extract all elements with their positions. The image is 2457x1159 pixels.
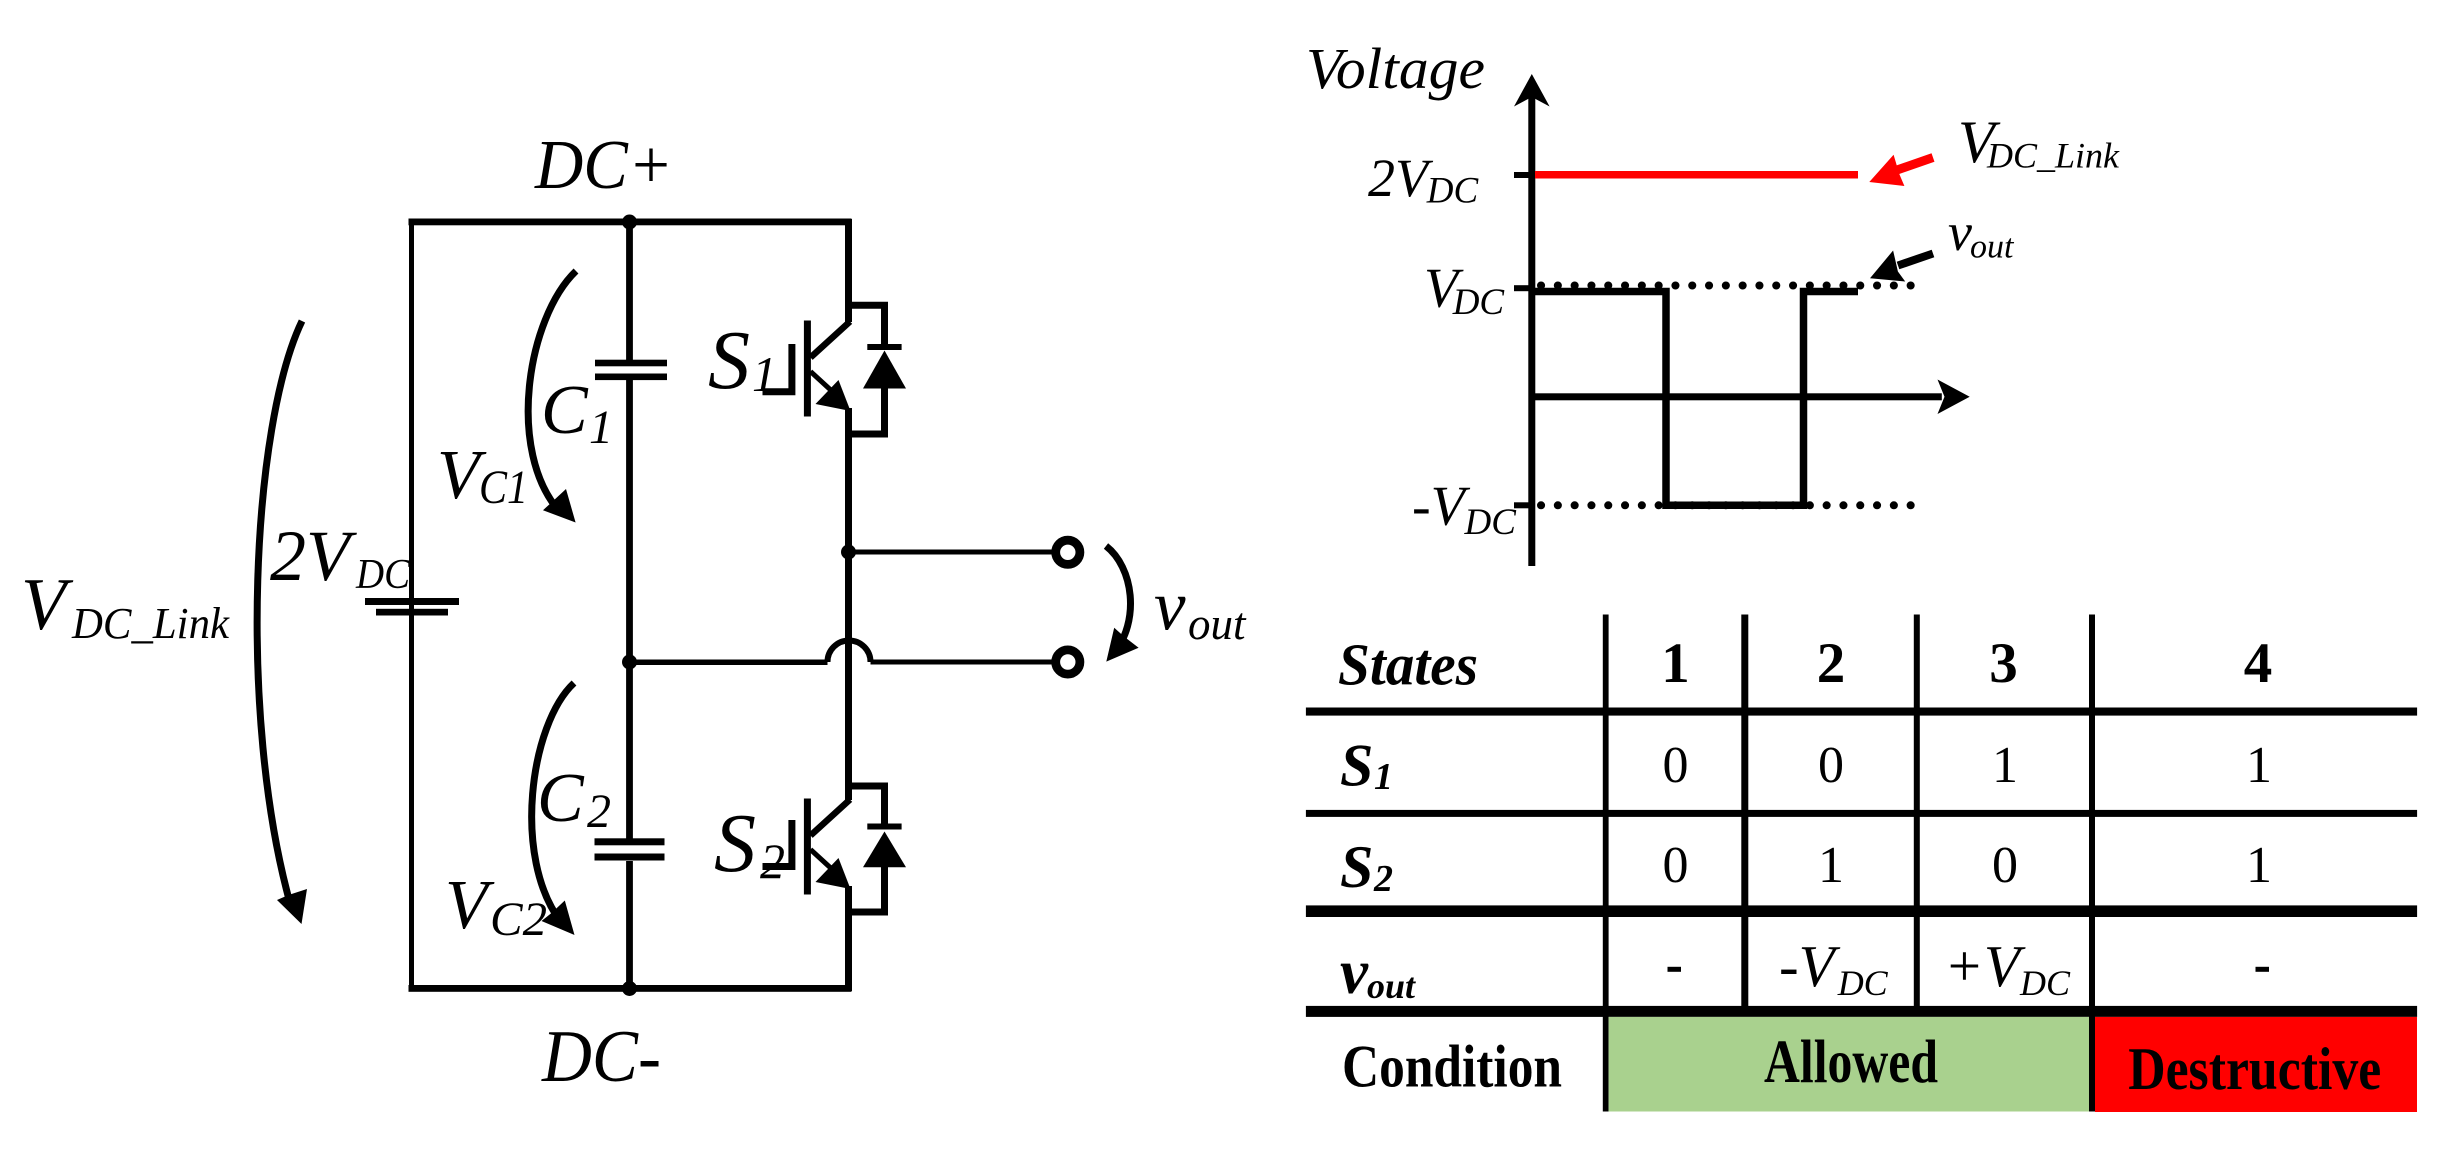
svg-text:2: 2 <box>1373 858 1393 900</box>
node dot DC+ junction <box>622 215 637 230</box>
transistor S1 emitter arrow <box>816 380 851 411</box>
svg-text:-V: -V <box>1412 476 1471 538</box>
red VDC_Link arrowhead <box>1869 155 1904 186</box>
node dot midpoint junction <box>622 655 637 670</box>
svg-text:S: S <box>1340 834 1373 900</box>
svg-text:0: 0 <box>1992 837 2018 894</box>
svg-text:C: C <box>541 372 589 449</box>
svg-text:DC: DC <box>1837 963 1889 1003</box>
table vout value col1 dash <box>1668 967 1682 972</box>
svg-text:DC: DC <box>2019 963 2071 1003</box>
svg-text:1: 1 <box>1818 837 1844 894</box>
battery 2VDC plate short <box>376 609 448 616</box>
svg-text:1: 1 <box>1661 632 1690 695</box>
svg-text:-V: -V <box>1779 933 1841 999</box>
svg-text:out: out <box>1970 229 2015 266</box>
arrow VC1 arc <box>528 271 576 512</box>
wire left bus <box>409 219 414 991</box>
wire output top <box>849 550 1052 555</box>
wire hop over switch branch <box>828 641 871 663</box>
svg-text:Destructive: Destructive <box>2128 1036 2381 1102</box>
capacitor C1 plate bottom <box>595 374 667 381</box>
svg-text:1: 1 <box>1374 756 1393 798</box>
tick 2VDC <box>1514 172 1532 178</box>
svg-text:C: C <box>537 760 585 837</box>
transistor S2 emitter line <box>811 850 835 872</box>
dotted VDC level line <box>1541 282 1912 290</box>
terminal bottom <box>1056 650 1080 674</box>
svg-text:1: 1 <box>2246 837 2272 894</box>
transistor S2 gate bar <box>804 799 811 895</box>
table vertical line v4 <box>2089 615 2095 1112</box>
table green Allowed cell <box>1609 1017 2089 1112</box>
arrow VC2 head <box>542 901 575 936</box>
dotted -VDC level line <box>1541 501 1912 509</box>
svg-text:2V: 2V <box>1368 148 1434 208</box>
black vout arrow shaft <box>1898 254 1933 266</box>
table horizontal rule h4 <box>1306 1006 2417 1017</box>
svg-text:3: 3 <box>1989 632 2018 695</box>
transistor S2 emitter arrow <box>816 858 851 889</box>
terminal top <box>1056 540 1080 564</box>
wire bottom bus DC- <box>409 985 852 992</box>
svg-text:Voltage: Voltage <box>1306 36 1485 101</box>
svg-text:4: 4 <box>2244 632 2273 695</box>
svg-text:1: 1 <box>752 346 777 402</box>
wire capacitor branch <box>626 222 633 989</box>
waveform horizontal axis arrowhead <box>1938 380 1970 415</box>
svg-text:v: v <box>1340 937 1369 1007</box>
table horizontal rule h2 <box>1306 810 2417 817</box>
arrow VDC_Link arc <box>257 321 302 903</box>
svg-text:DC_Link: DC_Link <box>71 599 230 648</box>
svg-text:S: S <box>714 797 756 890</box>
diode D1 cathode bar <box>867 344 901 350</box>
svg-text:DC-: DC- <box>541 1016 661 1098</box>
svg-text:v: v <box>1948 202 1972 262</box>
table vertical line v3 <box>1914 615 1920 1012</box>
waveform horizontal axis <box>1532 393 1942 400</box>
transistor S1 gate bar <box>804 321 811 417</box>
svg-text:1: 1 <box>2246 737 2272 794</box>
transistor S1 emitter line <box>811 372 835 394</box>
svg-text:DC: DC <box>1426 171 1480 212</box>
svg-text:1: 1 <box>1992 737 2018 794</box>
svg-text:0: 0 <box>1663 837 1689 894</box>
svg-text:0: 0 <box>1663 737 1689 794</box>
red 2VDC DC-link level line <box>1535 171 1858 179</box>
vout square wave <box>1535 292 1858 506</box>
svg-text:2: 2 <box>760 833 785 889</box>
waveform vertical axis arrowhead <box>1514 74 1550 107</box>
svg-text:1: 1 <box>589 401 613 454</box>
svg-text:2: 2 <box>587 785 611 838</box>
svg-text:DC_Link: DC_Link <box>1986 136 2120 176</box>
diode D2 triangle <box>863 832 906 868</box>
svg-text:out: out <box>1188 599 1247 649</box>
wire switch branch lower <box>845 886 852 991</box>
wire switch branch upper <box>845 219 852 322</box>
svg-text:v: v <box>1154 568 1186 646</box>
transistor S1 IGBT gate lead <box>763 344 792 392</box>
svg-text:2: 2 <box>1817 632 1846 695</box>
table vertical line v1 <box>1603 615 1609 1112</box>
svg-text:C1: C1 <box>479 461 528 514</box>
waveform vertical axis <box>1528 95 1535 566</box>
wire top bus DC+ <box>409 219 852 226</box>
capacitor C2 plate top <box>595 838 665 845</box>
svg-text:DC: DC <box>1464 502 1518 543</box>
arrow VC1 head <box>543 489 576 523</box>
arrow vout arc <box>1106 546 1131 655</box>
svg-text:V: V <box>21 564 74 646</box>
transistor S1 collector line <box>811 322 851 358</box>
svg-text:Condition: Condition <box>1342 1033 1562 1099</box>
svg-text:Allowed: Allowed <box>1764 1029 1938 1096</box>
diode D2 cathode bar <box>867 824 901 830</box>
table red Destructive cell <box>2095 1017 2417 1112</box>
node dot DC- junction <box>622 981 637 996</box>
tick -VDC <box>1514 502 1532 508</box>
capacitor C2 plate bottom <box>595 854 665 861</box>
svg-text:States: States <box>1338 631 1478 697</box>
svg-text:0: 0 <box>1818 737 1844 794</box>
diode D1 triangle <box>863 351 906 389</box>
table vout value col4 dash <box>2256 967 2270 972</box>
svg-text:out: out <box>1367 966 1416 1006</box>
table vertical line v2 <box>1741 615 1748 1012</box>
svg-text:DC: DC <box>1452 282 1506 323</box>
diode D2 branch <box>849 786 885 912</box>
black vout arrowhead <box>1870 251 1905 282</box>
arrow VDC_Link head <box>277 889 307 924</box>
svg-text:2V: 2V <box>270 516 357 596</box>
transistor S2 collector line <box>811 800 851 836</box>
svg-text:C2: C2 <box>490 893 547 946</box>
wire output bottom right <box>871 660 1052 665</box>
svg-text:DC+: DC+ <box>534 127 673 204</box>
capacitor C1 plate top <box>595 360 667 367</box>
wire switch branch mid <box>845 408 852 800</box>
svg-text:S: S <box>708 314 750 407</box>
arrow vout head <box>1106 628 1138 662</box>
wire output bottom left <box>630 660 828 666</box>
arrow VC2 arc <box>532 683 574 922</box>
diode D1 branch <box>849 305 885 434</box>
svg-text:S: S <box>1340 733 1373 799</box>
node dot output junction <box>841 545 856 560</box>
svg-text:V: V <box>445 867 495 944</box>
tick VDC <box>1514 285 1532 291</box>
svg-text:+V: +V <box>1944 933 2026 999</box>
table horizontal rule h1 <box>1306 708 2417 716</box>
table horizontal rule h3 <box>1306 905 2417 917</box>
svg-text:DC: DC <box>355 552 411 598</box>
battery 2VDC plate long <box>365 598 459 605</box>
red VDC_Link arrow shaft <box>1897 158 1933 171</box>
transistor S2 IGBT gate lead <box>763 820 792 867</box>
